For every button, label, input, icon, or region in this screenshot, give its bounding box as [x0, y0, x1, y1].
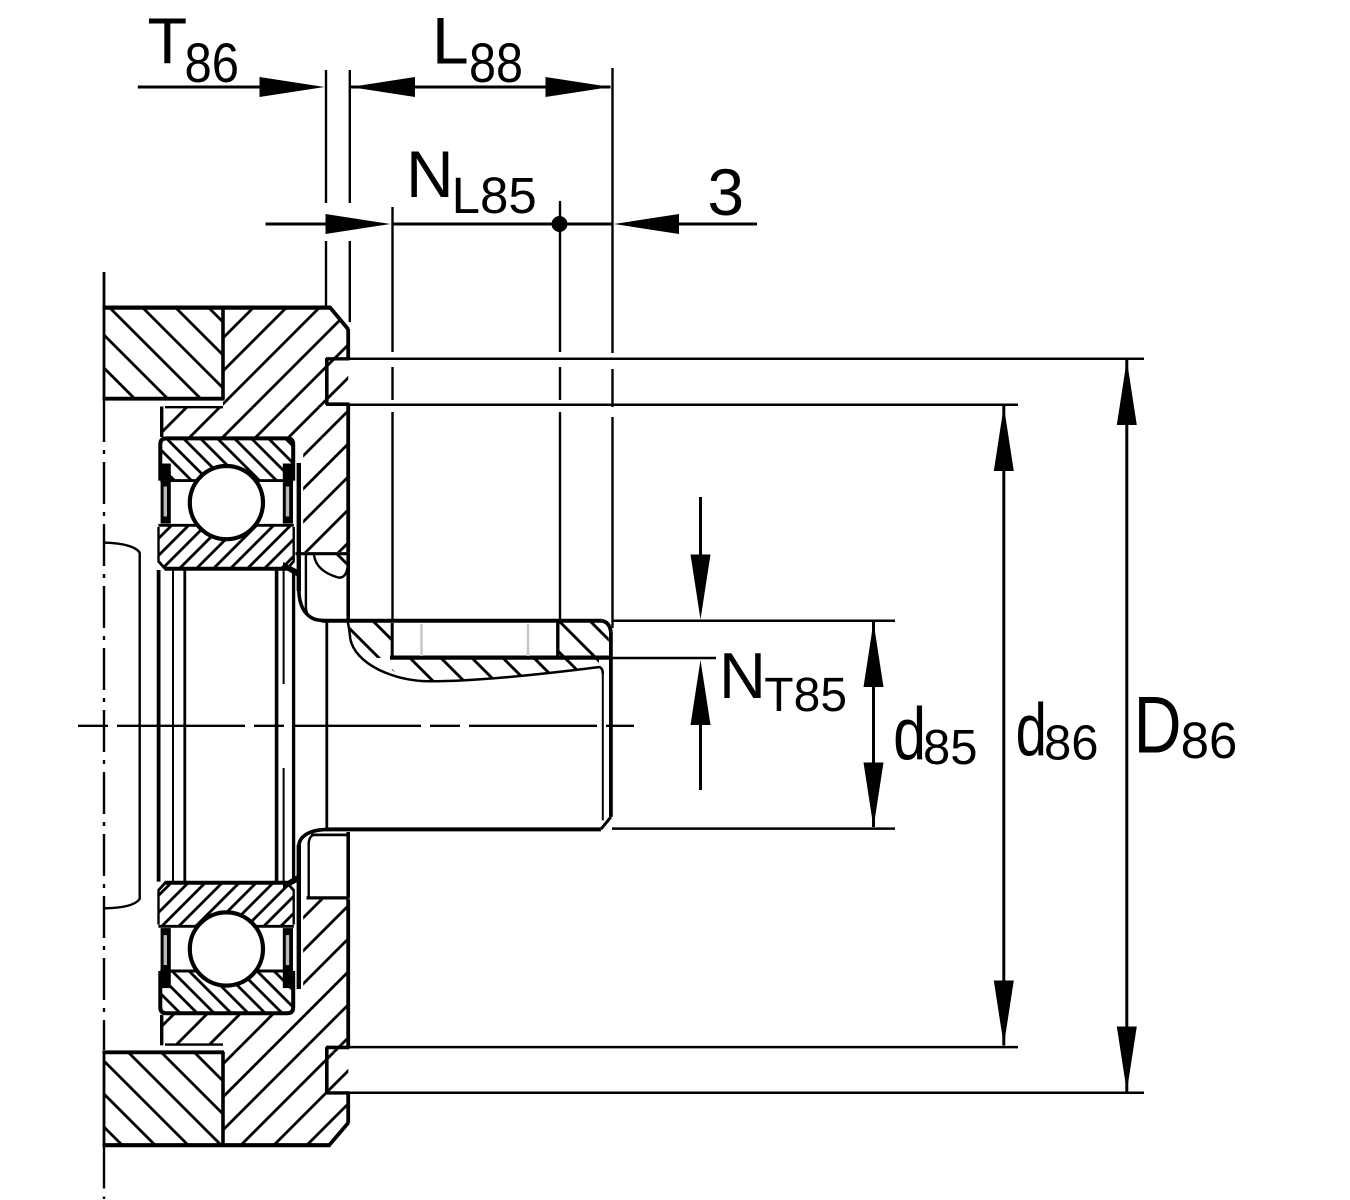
dimension line L88 — [350, 77, 611, 97]
housing front piece band over top bearing — [162, 400, 349, 438]
svg-text:88: 88 — [469, 33, 523, 95]
hub sleeve wall inner face upper — [346, 552, 350, 620]
bottom bearing seals — [161, 928, 293, 988]
dimension line d86 — [994, 406, 1014, 1046]
hub spun inner curve — [347, 620, 603, 682]
svg-text:d: d — [893, 693, 926, 776]
spigot notch upper — [326, 358, 350, 405]
hub bottom tangent line — [311, 834, 348, 837]
extension line recess left x=392.5 — [391, 207, 393, 622]
centerline mounting face x=104 — [103, 400, 105, 1199]
sleeve outer surface upper — [297, 463, 301, 591]
dimension arrow 3 — [614, 214, 757, 234]
dimension arrows NT85 — [691, 497, 711, 790]
bottom bearing outer ring — [160, 971, 293, 1013]
top bearing outer ring — [160, 438, 293, 480]
svg-text:T: T — [148, 4, 188, 77]
housing front piece column right of bottom bearing — [303, 900, 348, 1015]
hub hatch below recess — [392, 659, 599, 681]
label T86 — [148, 4, 240, 94]
sleeve outer bend upper — [299, 590, 327, 621]
svg-text:D: D — [1134, 679, 1182, 770]
sleeve inner surface upper — [305, 555, 307, 610]
junction blob right of bottom bearing — [283, 875, 298, 890]
inner bore lines between bearings — [159, 570, 294, 882]
hub sleeve wall bottom edge — [307, 896, 349, 899]
svg-text:L85: L85 — [452, 167, 537, 224]
dimension line NL85 — [266, 214, 613, 234]
extension line hub top / d85 top y=620.8 — [613, 620, 895, 623]
extension line recess bottom NT85 y=658 — [612, 657, 717, 660]
svg-text:86: 86 — [1181, 712, 1238, 769]
housing bottom edge — [103, 1143, 331, 1147]
centerline shaft axis y=725.8 — [78, 725, 634, 727]
back plate lower flange section — [103, 1052, 225, 1146]
svg-text:d: d — [1016, 689, 1047, 771]
housing top edge — [103, 306, 331, 310]
hub top edge — [322, 621, 611, 632]
dimension line D86 — [1117, 360, 1137, 1092]
housing front piece column right of top bearing — [303, 437, 348, 552]
svg-text:N: N — [406, 137, 454, 211]
extension line housing outer face x=351.5 — [349, 70, 351, 322]
spigot notch lower — [326, 1047, 350, 1094]
hub hatch left of recess — [350, 623, 392, 659]
hub bottom edge — [326, 827, 601, 831]
svg-text:86: 86 — [1044, 717, 1099, 771]
svg-text:T85: T85 — [764, 669, 847, 722]
svg-text:85: 85 — [923, 721, 978, 775]
sleeve curl at wall top — [314, 555, 348, 578]
hub end face — [609, 632, 613, 817]
extension line housing front recessed face x=326 — [325, 70, 327, 306]
sleeve outer bend lower — [299, 829, 327, 846]
top bearing inner ring — [158, 525, 293, 569]
bottom bearing raceway shoulder lines — [158, 926, 293, 971]
hub sleeve wall top edge — [296, 552, 349, 555]
extension line d86 top y=404.7 — [348, 403, 1018, 406]
hub end face inner line — [602, 674, 604, 821]
label d86 — [1016, 689, 1099, 771]
label NL85 — [406, 137, 537, 224]
housing front face outline lower — [346, 899, 350, 1123]
extension line hub bottom / d85 bottom y=828.6 — [612, 827, 895, 830]
label NT85 — [719, 639, 847, 722]
recess in hub bore — [390, 623, 611, 658]
housing front face outline — [346, 329, 350, 552]
extension line lubrication hole x=560 — [559, 201, 561, 619]
sleeve inner bend lower — [309, 834, 315, 843]
extension line d86 bottom y=1047 — [348, 1046, 1018, 1049]
top bearing seals — [161, 464, 293, 524]
dimension line T86 — [138, 77, 325, 97]
junction blob right of top bearing — [283, 562, 298, 577]
housing front piece band under bottom bearing — [162, 1015, 349, 1053]
bottom bearing inner ring — [158, 883, 293, 927]
extension line D86 bottom y=1092.8 — [348, 1092, 1144, 1095]
label D86 — [1134, 679, 1238, 770]
back plate upper flange section — [103, 272, 225, 400]
label d85 — [893, 693, 977, 776]
dot terminator NL85 at lubrication hole plane — [552, 216, 568, 232]
svg-text:L: L — [432, 3, 469, 77]
back plate bore lip — [104, 543, 140, 909]
housing front piece lower flange section — [223, 1052, 348, 1145]
hub root edge at recessed face — [325, 622, 328, 829]
svg-text:86: 86 — [185, 32, 240, 95]
top bearing ball — [190, 466, 263, 539]
svg-text:3: 3 — [707, 155, 744, 229]
hub sleeve wall inner face lower — [346, 832, 350, 899]
sleeve inner surface lower — [308, 842, 310, 898]
top bearing raceway shoulder lines — [158, 481, 293, 526]
label L88 — [432, 3, 523, 94]
bottom bearing ball — [190, 912, 263, 985]
sleeve outer surface lower — [297, 845, 301, 989]
housing front piece upper flange section — [223, 307, 348, 400]
extension line hub end face x=612.5 — [611, 68, 613, 628]
dimension line d85 — [864, 622, 884, 828]
hub hatch end collar — [560, 623, 610, 656]
sleeve inner bend upper — [306, 608, 313, 619]
hub end chamfer — [601, 817, 611, 829]
svg-text:N: N — [719, 639, 766, 712]
extension line D86 top y=358.5 — [348, 358, 1144, 361]
